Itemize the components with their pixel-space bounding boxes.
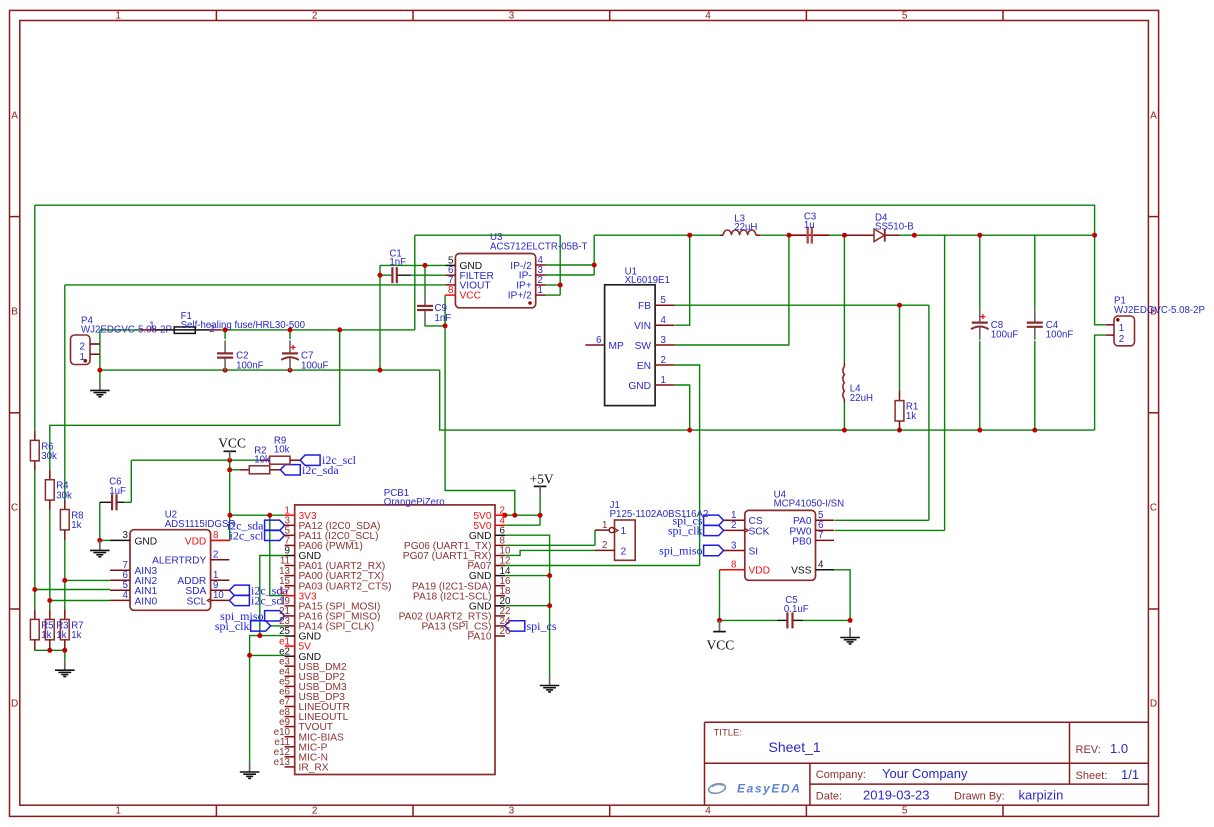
wire: fuse to C2/C7 node (221, 329, 415, 331)
svg-text:3: 3 (123, 530, 129, 541)
PCB1 pin 21 PA16 (SPI_MISO) (279, 606, 380, 622)
svg-text:4: 4 (705, 806, 711, 817)
PCB1 pin 22 PA02 (UART2_RTS) (399, 606, 511, 622)
fuse F1 Self-healing fuse/HRL30-500 (140, 311, 306, 335)
net flag spi_miso (U4 SI) (659, 544, 723, 558)
svg-text:SCK: SCK (749, 526, 770, 537)
wire: D4 to output node (900, 234, 1095, 236)
svg-text:SCL: SCL (186, 596, 206, 607)
svg-text:1: 1 (115, 806, 121, 817)
junction at 425.0,265.4 (423, 263, 428, 268)
R5 (30, 609, 39, 649)
wire: C4 bottom link (1034, 341, 1036, 430)
wire: PA0 run (835, 519, 929, 521)
svg-text:1: 1 (115, 10, 121, 21)
wire: R6 top feed (34, 205, 36, 430)
svg-text:D: D (1150, 699, 1157, 710)
svg-text:Your Company: Your Company (882, 766, 968, 781)
PCB1 pin 17 3V3 (279, 586, 317, 602)
capacitor C3 1u (789, 211, 829, 243)
wire: IP-/2 pin4 link (546, 264, 595, 266)
capacitor C1 1nF (389, 249, 410, 284)
junction at 1034.8,430.1 (1032, 428, 1037, 433)
svg-text:XL6019E1: XL6019E1 (625, 275, 670, 286)
svg-text:WJ2EDGVC-5.08-2P: WJ2EDGVC-5.08-2P (1114, 305, 1205, 316)
svg-text:22uH: 22uH (734, 222, 757, 233)
net flag i2c_sda (PCB1 pin3) (227, 518, 285, 532)
wire: P4 pin drop (99, 330, 101, 370)
svg-text:Date:: Date: (816, 791, 842, 803)
wire: C5 left run (720, 619, 778, 621)
svg-text:1k: 1k (56, 630, 66, 641)
wire: IP- drop (593, 235, 595, 275)
junction at 229.7,460.2 (227, 458, 232, 463)
PCB1 pin 10 PG07 (UART1_RX) (403, 546, 511, 562)
svg-text:spi_clk: spi_clk (215, 619, 250, 633)
svg-text:e13: e13 (274, 757, 291, 768)
svg-text:spi_cs: spi_cs (527, 619, 557, 633)
wire: GND pin9 drop (260, 556, 285, 636)
svg-text:spi_clk: spi_clk (668, 523, 703, 537)
wire: J1 pin1 riser (594, 530, 596, 545)
ground: GND rail (540, 676, 560, 692)
svg-text:B: B (11, 307, 18, 318)
junction at 689.7,430.1 (687, 428, 692, 433)
junction at 445.1,325.9 (443, 323, 448, 328)
junction at 899.5,305.2 (897, 303, 902, 308)
wire: PA07 run (495, 565, 700, 567)
svg-text:GND: GND (135, 536, 158, 547)
svg-text:VCC: VCC (218, 436, 246, 451)
svg-text:C: C (11, 503, 18, 514)
R8 (60, 500, 83, 540)
PCB1 pin e6 USB_DP3 (279, 687, 345, 703)
wire: C6 right riser (130, 460, 132, 502)
ground: U4 VSS (840, 628, 860, 644)
PCB1 pin 14 GND (469, 566, 511, 582)
svg-text:1k: 1k (41, 630, 51, 641)
wire: GND pin20 link (505, 605, 549, 607)
junction at 979.8,235.2 (977, 233, 982, 238)
svg-text:SS510-B: SS510-B (875, 221, 914, 232)
PCB1 pin e4 USB_DP2 (279, 667, 345, 683)
PCB1 pin 7 PA06 (PWM1) (285, 536, 363, 552)
svg-text:SW: SW (635, 341, 652, 352)
R1 (895, 391, 918, 431)
svg-text:VIN: VIN (634, 321, 651, 332)
svg-text:2: 2 (1119, 334, 1124, 345)
junction at 850.1,620.4 (848, 618, 853, 623)
connector P4 WJ2EDGVC-5.08-2P (71, 316, 172, 365)
svg-text:MP: MP (609, 341, 624, 352)
ground: PCB1 left (240, 762, 260, 778)
svg-text:A: A (1150, 110, 1157, 121)
wire: IP+ pin2 link (546, 284, 561, 286)
svg-text:0.1uF: 0.1uF (784, 604, 809, 615)
wire: P4 ground stub (99, 370, 101, 380)
inductor L3 22uH (720, 213, 760, 235)
wire: P4 pin1 link (90, 353, 100, 355)
PCB1 pin 23 PA14 (SPI_CLK) (279, 616, 374, 632)
diode D4 SS510-B (844, 213, 913, 242)
svg-text:1/1: 1/1 (1121, 767, 1139, 782)
svg-text:1: 1 (149, 320, 154, 331)
net flag i2c_scl (U2 SCL) (229, 593, 285, 607)
svg-text:2: 2 (621, 546, 627, 557)
net flag spi_clk (U4 SCK) (668, 523, 724, 537)
PCB1 pin e5 USB_DM3 (279, 677, 347, 693)
wire: P4 pin2 link (90, 343, 100, 345)
EasyEDA logo (708, 782, 727, 795)
wire: ground bottom rail (440, 370, 1095, 430)
wire: C4 top feed (1034, 235, 1036, 309)
op-amp/current sensor U3 ACS712ELCTR-05B-T (445, 232, 587, 308)
svg-text:100nF: 100nF (1046, 330, 1074, 341)
power flag VCC at R2 (218, 436, 246, 461)
ground: divider (55, 660, 75, 676)
junction at 1094.6,235.2 (1092, 233, 1097, 238)
PCB1 pin 4 5V0 (473, 516, 505, 532)
junction at 514.8,515.2 (512, 513, 517, 518)
svg-text:AIN0: AIN0 (135, 596, 158, 607)
junction at 49.8,650.3 (47, 648, 52, 653)
wire: VCC rail (131, 459, 259, 461)
svg-text:8: 8 (731, 560, 737, 571)
svg-text:5: 5 (902, 10, 908, 21)
svg-text:1nF: 1nF (389, 257, 406, 268)
junction at 719.5,620.4 (717, 618, 722, 623)
svg-text:1: 1 (602, 520, 607, 531)
header PCB1 OrangePiZero (295, 488, 495, 775)
svg-text:2: 2 (602, 540, 607, 551)
PCB1 pin 25 GND (279, 626, 321, 642)
C8 (971, 310, 1018, 341)
junction at 339.7,329.9 (337, 327, 342, 332)
wire: main to VIN (675, 235, 690, 325)
net flag i2c_sda (U2 SDA) (229, 583, 288, 597)
capacitor C9 1nF (417, 293, 451, 324)
PCB1 pin 12 PA07 (467, 556, 510, 572)
ground: P4 (90, 380, 110, 396)
PCB1 pin 6 GND (469, 526, 506, 542)
wire: AIN1 run (35, 589, 110, 591)
junction at 269.8,515.2 (267, 513, 272, 518)
svg-text:TITLE:: TITLE: (714, 727, 743, 738)
capacitor C5 0.1uF (777, 595, 809, 628)
wire: U2 GND link (100, 539, 110, 541)
junction at 689.7,235.2 (687, 233, 692, 238)
wire: C2 bottom lead (224, 369, 226, 370)
wire: output top loop (35, 205, 1095, 235)
junction at 789.0,235.2 (787, 233, 792, 238)
wire: C6 right lead link (124, 501, 131, 503)
PCB1 pin e9 TVOUT (279, 717, 333, 733)
wire: C8 top feed (979, 235, 981, 309)
wire: C1 to FILTER (411, 274, 446, 276)
svg-text:1: 1 (1119, 323, 1124, 334)
svg-text:A: A (11, 110, 18, 121)
power flag +5V (530, 472, 554, 496)
wire: battery sense to R4 (50, 330, 340, 470)
svg-text:VCC: VCC (707, 638, 735, 653)
resistor R2 10k (239, 445, 280, 474)
PCB1 pin 11 PA01 (UART2_RX) (280, 556, 385, 572)
junction at 34.8,589.5 (32, 587, 37, 592)
PCB1 pin 16 PA19 (I2C1-SDA) (412, 576, 511, 592)
C2 (217, 340, 264, 371)
junction at 549.6,575.6 (547, 573, 552, 578)
wire: GND left drop (250, 636, 260, 762)
wire: EN drop (675, 365, 700, 566)
C7 (281, 340, 328, 371)
junction at 225.1,329.9 (223, 327, 228, 332)
wire: U3 VCC red stub (445, 294, 455, 296)
svg-text:1nF: 1nF (435, 313, 452, 324)
svg-text:1k: 1k (71, 630, 81, 641)
svg-text:FB: FB (638, 301, 651, 312)
wire: C6 left drop (99, 502, 101, 540)
wire: output drop to PW0 (944, 235, 946, 530)
wire: C5 right run (803, 619, 850, 621)
wire: C9 bottom link (425, 323, 445, 326)
svg-text:PB0: PB0 (792, 536, 812, 547)
svg-text:VDD: VDD (185, 536, 207, 547)
svg-text:1uF: 1uF (109, 486, 126, 497)
svg-text:ACS712ELCTR-05B-T: ACS712ELCTR-05B-T (490, 242, 588, 253)
wire: GND e2 run (250, 654, 285, 656)
junction at 549.6,605.7 (547, 603, 552, 608)
PCB1 pin e1 5V (279, 636, 311, 652)
junction at 290.0,370.1 (288, 368, 293, 373)
R4 (45, 470, 72, 510)
ADC U2 ADS1115IDGSR (110, 509, 235, 610)
wire: IP- pin3 link (546, 274, 595, 276)
capacitor C6 1uF (100, 477, 126, 511)
svg-text:4: 4 (123, 590, 129, 601)
svg-text:4: 4 (705, 10, 711, 21)
junction at 560.2,285.0 (558, 283, 563, 288)
junction at 380.0,275.2 (378, 273, 383, 278)
wire: 5V0 pin4 run (505, 524, 540, 526)
junction at 899.5,430.1 (897, 428, 902, 433)
wire: R1 bottom (899, 429, 901, 430)
wire: GND pin6 drop (505, 535, 549, 675)
svg-text:5: 5 (661, 295, 666, 306)
junction at 64.8,580.4 (62, 578, 67, 583)
svg-text:100nF: 100nF (236, 360, 264, 371)
svg-text:2: 2 (312, 10, 318, 21)
net flag spi_miso (PCB1 pin21) (220, 609, 284, 623)
wire: 3V3 to pin17 (270, 515, 285, 595)
PCB1 pin e3 USB_DM2 (279, 656, 347, 672)
svg-text:2: 2 (312, 806, 318, 817)
junction at 99.9,370.1 (97, 368, 102, 373)
net flag spi_clk (PCB1 pin23) (215, 619, 271, 633)
wire: FB drop to PA0 (928, 305, 930, 520)
svg-text:2: 2 (731, 520, 736, 531)
PCB1 pin 18 PA18 (I2C1-SCL) (413, 586, 511, 602)
wire: VCC drop to U2 VDD (211, 460, 230, 540)
junction at 914.4,235.2 (912, 233, 917, 238)
svg-text:SI: SI (749, 546, 759, 557)
PCB1 pin 19 PA15 (SPI_MOSI) (279, 596, 380, 612)
svg-text:VCC: VCC (460, 291, 482, 302)
svg-text:30k: 30k (41, 451, 57, 462)
svg-text:22uH: 22uH (850, 393, 873, 404)
net flag i2c_scl (R9) (300, 453, 357, 467)
junction at 229.7,469.8 (227, 467, 232, 472)
svg-text:VSS: VSS (791, 566, 812, 577)
wire: VSS drop (834, 570, 850, 621)
svg-text:1: 1 (538, 285, 543, 296)
svg-text:GND: GND (628, 381, 651, 392)
svg-text:OrangePiZero: OrangePiZero (384, 497, 445, 508)
svg-text:IR_RX: IR_RX (299, 763, 329, 774)
wire: C7 bottom lead (289, 369, 291, 370)
svg-text:2: 2 (213, 550, 218, 561)
svg-text:10k: 10k (254, 455, 270, 466)
svg-text:1.0: 1.0 (1110, 741, 1128, 756)
svg-text:3: 3 (509, 806, 515, 817)
wire: spi_clk link (271, 625, 285, 627)
svg-text:i2c_scl: i2c_scl (230, 528, 265, 542)
svg-text:Company:: Company: (816, 769, 866, 781)
junction at 540.1,515.2 (538, 513, 543, 518)
connector P1 WJ2EDGVC-5.08-2P (1106, 296, 1205, 346)
wire: to ground R7 (64, 650, 66, 660)
junction at 504.9,515.2 (502, 513, 507, 518)
wire: PG06 to J1 pin1 (505, 544, 595, 546)
junction at 979.8,430.1 (977, 428, 982, 433)
R3 (45, 609, 54, 649)
junction at 594.2,265.0 (592, 263, 597, 268)
svg-text:3: 3 (661, 335, 666, 346)
svg-text:PA10: PA10 (467, 632, 491, 643)
wire: input ground rail (100, 369, 440, 371)
wire: C3 to L4 node (829, 234, 844, 236)
svg-text:5: 5 (902, 806, 908, 817)
junction at 844.4,430.1 (842, 428, 847, 433)
junction at 844.4,235.2 (842, 233, 847, 238)
svg-text:Sheet:: Sheet: (1076, 770, 1108, 782)
svg-text:1u: 1u (804, 220, 815, 231)
wire: P1 pin2 to ground rail (1095, 335, 1106, 430)
wire: PG07 to J1 pin2 (505, 550, 595, 555)
PCB1 pin 26 PA10 (467, 626, 511, 642)
svg-text:10k: 10k (274, 445, 290, 456)
regulator U1 XL6019E1 (585, 267, 674, 406)
PCB1 pin 24 PA13 (SPI_CS) (421, 616, 510, 632)
svg-text:4: 4 (818, 560, 824, 571)
PCB1 pin e11 MIC-P (274, 737, 327, 753)
wire: C9 top link (424, 265, 426, 293)
junction at 49.8,600.5 (47, 598, 52, 603)
wire: VIOUT drop to R8 (64, 285, 66, 500)
PCB1 pin 5 PA11 (I2C0_SCL) (285, 526, 379, 542)
svg-text:EN: EN (637, 361, 651, 372)
wire: IP+/2 pin1 link (546, 294, 561, 296)
wire: U1 GND drop (675, 385, 690, 430)
wire: C1 left link (380, 274, 392, 276)
svg-text:MCP41050-I/SN: MCP41050-I/SN (774, 498, 845, 509)
power flag VCC at U4 (inverted) (707, 620, 735, 652)
svg-text:Self-healing fuse/HRL30-500: Self-healing fuse/HRL30-500 (181, 320, 306, 331)
PCB1 pin 8 PG06 (UART1_TX) (404, 536, 506, 552)
svg-text:i2c_sda: i2c_sda (302, 463, 339, 477)
wire: GND pin14 link (505, 575, 549, 577)
svg-text:spi_miso: spi_miso (659, 544, 702, 558)
svg-text:REV:: REV: (1076, 744, 1101, 756)
wire: FB run (675, 304, 929, 306)
svg-text:1: 1 (621, 526, 627, 537)
net flag spi_cs (U4 CS) (673, 513, 724, 527)
svg-text:1k: 1k (906, 411, 916, 422)
R7 (60, 609, 69, 649)
wire: SW riser (675, 235, 789, 345)
wire: U3 GND drop (379, 265, 381, 370)
title block (705, 722, 1149, 805)
svg-text:1k: 1k (71, 520, 81, 531)
PCB1 pin e2 GND (279, 646, 321, 662)
svg-text:+5V: +5V (530, 472, 554, 487)
R6 (30, 430, 57, 470)
wire: 3V3 run (230, 514, 285, 516)
svg-text:100uF: 100uF (991, 330, 1019, 341)
svg-text:7: 7 (818, 530, 823, 541)
ground: U2 (90, 540, 110, 556)
wire: main output run (to L3) (594, 234, 720, 236)
wire: L3 to C3 node (760, 234, 789, 236)
PCB1 pin e12 MIC-N (274, 747, 328, 763)
connector J1 P125-1102A0BS116A2 (595, 500, 708, 560)
wire: PW0 run (835, 529, 945, 531)
svg-text:P125-1102A0BS116A2: P125-1102A0BS116A2 (610, 509, 709, 520)
wire: U3 VCC to 5V0 (445, 295, 515, 515)
junction at 225.1,370.1 (223, 368, 228, 373)
resistor R9 10k (260, 435, 301, 464)
wire: C8 bottom link (979, 341, 981, 430)
svg-text:EasyEDA: EasyEDA (737, 782, 802, 796)
wire: U4 VDD drop (719, 570, 721, 621)
C4 (1027, 310, 1074, 341)
junction at 290.0,329.9 (288, 327, 293, 332)
svg-text:6: 6 (596, 335, 602, 346)
PCB1 pin e10 MIC-BIAS (274, 727, 344, 743)
svg-text:2019-03-23: 2019-03-23 (863, 788, 930, 803)
wire: R8-R7 column (64, 540, 66, 610)
wire: P4 to fuse (100, 329, 140, 331)
junction at 380.0,370.1 (378, 368, 383, 373)
wire: GND pin25 run (260, 635, 285, 637)
wire: output to P1 pin1 (1095, 235, 1106, 325)
wire: L4 bottom link (843, 403, 845, 431)
wire: R6-R5 column (34, 471, 36, 610)
wire: IP+ drop (559, 235, 561, 295)
wire: R4-R3 column (49, 510, 51, 609)
PCB1 pin 3 PA12 (I2C0_SDA) (285, 516, 381, 532)
svg-text:100uF: 100uF (301, 360, 329, 371)
svg-text:karpizin: karpizin (1019, 788, 1064, 803)
wire: AIN2 run (65, 579, 110, 581)
wire: R2 left link (230, 469, 240, 471)
junction at 249.6,655.4 (247, 653, 252, 658)
digital pot U4 MCP41050-I/SN (724, 489, 845, 580)
net flag i2c_scl (PCB1 pin5) (230, 528, 285, 542)
svg-text:26: 26 (500, 626, 511, 637)
wire: C7 top lead (289, 330, 291, 339)
wire: resistor bottom bus (35, 649, 65, 652)
svg-text:8: 8 (213, 530, 219, 541)
